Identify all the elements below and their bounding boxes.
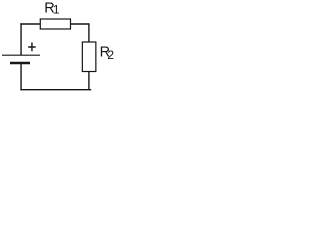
- battery negative plate (short thick): [10, 62, 30, 65]
- wire top-left horizontal: [20, 23, 40, 25]
- wire right vertical lower: [88, 72, 90, 90]
- wire bottom horizontal: [20, 89, 91, 91]
- battery positive plate (long): [2, 54, 40, 56]
- svg-text:1: 1: [53, 3, 60, 17]
- wire right vertical upper: [88, 23, 90, 42]
- svg-text:2: 2: [107, 48, 114, 62]
- wire left vertical upper: [20, 23, 22, 55]
- resistor R1: [40, 19, 70, 29]
- wire left vertical lower: [20, 63, 22, 90]
- resistor R2: [82, 42, 96, 72]
- wire top-right horizontal: [71, 23, 89, 25]
- battery plus sign: [28, 43, 36, 52]
